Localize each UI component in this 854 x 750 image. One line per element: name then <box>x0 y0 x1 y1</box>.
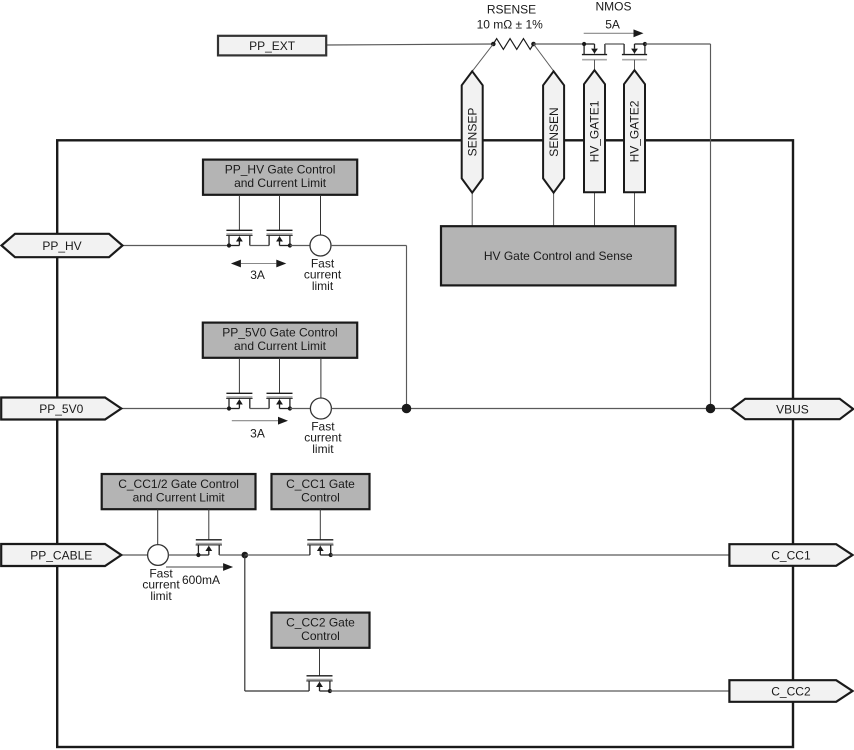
svg-text:HV_GATE1: HV_GATE1 <box>588 100 602 162</box>
wire PP_HV pin to Q1a <box>123 245 230 247</box>
arrow 3A bidirectional <box>231 260 286 268</box>
wire node to Q4 <box>245 554 310 556</box>
svg-text:PP_5V0: PP_5V0 <box>39 402 83 416</box>
svg-text:3A: 3A <box>250 426 265 440</box>
svg-text:Control: Control <box>301 629 340 643</box>
svg-text:C_CC2 Gate: C_CC2 Gate <box>286 616 355 630</box>
wire RSENSE to Q6 <box>534 43 585 45</box>
pin PP_CABLE <box>1 544 121 566</box>
terminal PP_EXT <box>218 36 326 56</box>
label fast current limit 1 <box>304 256 342 293</box>
arrow 3A row2 <box>232 417 288 425</box>
svg-text:PP_5V0 Gate Control: PP_5V0 Gate Control <box>222 326 337 340</box>
wire PP_EXT to RSENSE <box>326 44 493 45</box>
wire VBUS bus <box>331 408 731 410</box>
pin SENSEP <box>462 71 483 192</box>
label fast current limit 3 <box>142 566 180 602</box>
svg-text:PP_CABLE: PP_CABLE <box>30 548 92 562</box>
svg-text:limit: limit <box>150 589 172 603</box>
svg-text:C_CC1 Gate: C_CC1 Gate <box>286 477 355 491</box>
svg-text:10 mΩ ± 1%: 10 mΩ ± 1% <box>477 18 544 32</box>
wire gate Q5 <box>319 648 321 676</box>
transistor Q2a <box>226 393 252 410</box>
svg-text:VBUS: VBUS <box>776 402 809 416</box>
wire SENSEN diagonal <box>534 44 554 71</box>
current limit circle 1 <box>310 235 331 256</box>
svg-text:NMOS: NMOS <box>596 0 632 14</box>
svg-text:600mA: 600mA <box>182 573 220 587</box>
svg-text:5A: 5A <box>605 17 620 31</box>
chip boundary box <box>57 140 793 747</box>
wire gate Q4 <box>319 509 321 540</box>
wire node down to C_CC2 row <box>245 555 309 691</box>
transistor Q3 <box>196 540 222 557</box>
transistor Q2b <box>266 393 292 410</box>
wire Q6 to Q7 <box>605 43 624 45</box>
wire gate Q1b <box>279 195 281 231</box>
svg-text:RSENSE: RSENSE <box>487 2 536 16</box>
svg-text:and Current Limit: and Current Limit <box>234 176 327 190</box>
wire gate Q1a <box>238 195 240 231</box>
wire HV_GATE2 to HV block <box>634 192 636 226</box>
svg-text:PP_HV Gate Control: PP_HV Gate Control <box>225 163 336 177</box>
wire Q2b to circle 2 <box>290 408 311 410</box>
wire SENSEN to HV block <box>553 193 555 227</box>
wire Q5 to C_CC2 pin <box>330 690 730 692</box>
pin SENSEN <box>543 71 564 192</box>
wire HV_GATE1 to HV block <box>594 192 596 226</box>
label 600mA <box>182 573 220 587</box>
wire Q4 to C_CC1 pin <box>331 554 730 556</box>
pin PP_5V0 <box>1 398 121 420</box>
label RSENSE <box>487 2 536 16</box>
wire Q3 to node <box>219 554 245 556</box>
arrow 5A <box>584 29 644 37</box>
wire gate Q3 <box>208 509 210 540</box>
transistor Q5 C_CC2 <box>306 676 332 693</box>
svg-text:C_CC2: C_CC2 <box>771 684 811 698</box>
wire Q1a to Q1b <box>250 245 269 247</box>
node junction PP_EXT branch <box>706 404 716 414</box>
wire PP_5V0 pin to Q2a <box>121 408 229 410</box>
pin HV_GATE2 <box>624 70 645 192</box>
wire PP_CABLE pin to circle 3 <box>121 554 147 556</box>
wire Q7 to VBUS corner <box>645 44 711 409</box>
block C_CC1/2 Gate Control <box>102 474 256 509</box>
pin VBUS <box>732 399 854 419</box>
wire to current limit circle 2 <box>320 358 322 398</box>
transistor Q1b <box>266 230 292 247</box>
arrow 600mA <box>166 563 233 571</box>
wire SENSEP diagonal <box>472 44 493 71</box>
label 3A row1 <box>250 268 265 282</box>
block C_CC1 Gate Control <box>272 474 370 509</box>
svg-text:PP_EXT: PP_EXT <box>249 39 296 53</box>
label NMOS <box>596 0 632 14</box>
transistor Q1a <box>226 230 252 247</box>
resistor RSENSE <box>491 39 536 50</box>
wire Q1b to circle 1 <box>290 245 310 247</box>
node junction PP_HV branch <box>402 404 412 414</box>
label fast current limit 2 <box>304 419 342 456</box>
block PP_5V0 Gate Control <box>203 323 357 358</box>
svg-text:C_CC1/2 Gate Control: C_CC1/2 Gate Control <box>118 477 239 491</box>
svg-text:and Current Limit: and Current Limit <box>234 339 327 353</box>
block C_CC2 Gate Control <box>272 613 370 648</box>
block PP_HV Gate Control <box>203 160 357 195</box>
svg-text:limit: limit <box>312 442 334 456</box>
current limit circle 2 <box>310 398 331 419</box>
wire circle 1 to corner <box>331 246 407 409</box>
transistor Q7 NMOS2 <box>622 42 647 60</box>
wire HV_GATE1 stub top <box>594 60 596 70</box>
block HV Gate Control and Sense <box>441 226 676 285</box>
svg-text:HV Gate Control and Sense: HV Gate Control and Sense <box>484 249 633 263</box>
label RSENSE value <box>477 18 544 32</box>
pin PP_HV <box>2 234 123 257</box>
pin C_CC1 <box>729 544 852 566</box>
svg-text:C_CC1: C_CC1 <box>771 548 811 562</box>
svg-text:HV_GATE2: HV_GATE2 <box>628 100 642 162</box>
wire to current limit circle 3 <box>157 509 159 544</box>
svg-text:limit: limit <box>312 279 334 293</box>
wire gate Q2a <box>238 358 240 394</box>
svg-text:and Current Limit: and Current Limit <box>133 490 226 504</box>
svg-text:SENSEN: SENSEN <box>547 107 561 156</box>
current limit circle 3 <box>148 545 169 566</box>
svg-text:PP_HV: PP_HV <box>42 239 81 253</box>
wire Q2a to Q2b <box>250 408 269 410</box>
svg-text:3A: 3A <box>250 268 265 282</box>
wire HV_GATE2 stub top <box>634 60 636 70</box>
transistor Q4 C_CC1 <box>307 540 333 557</box>
label 3A row2 <box>250 426 265 440</box>
wire SENSEP to HV block <box>471 193 473 227</box>
node junction C_CC split <box>242 552 249 559</box>
wire to current limit circle 1 <box>320 195 322 235</box>
transistor Q6 NMOS1 <box>582 42 607 60</box>
svg-text:SENSEP: SENSEP <box>465 108 479 157</box>
pin C_CC2 <box>729 680 852 702</box>
pin HV_GATE1 <box>584 70 605 192</box>
wire circle 3 to Q3 <box>168 554 198 556</box>
label 5A <box>605 17 620 31</box>
wire gate Q2b <box>279 358 281 394</box>
svg-text:Control: Control <box>301 490 340 504</box>
